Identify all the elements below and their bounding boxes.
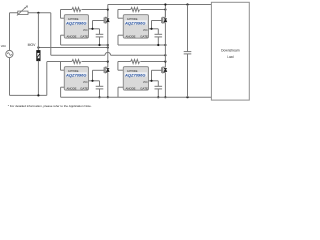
wire: cathode drop	[60, 10, 62, 19]
wire: cathode stub	[61, 17, 65, 19]
wire: cathode stub	[118, 17, 123, 19]
wire: anode jog down	[117, 87, 119, 97]
wire: Q1 drain riser	[107, 5, 109, 10]
load block	[211, 2, 249, 100]
svg-text:CATHODE: CATHODE	[127, 69, 138, 73]
junction: drain to rail	[164, 60, 166, 62]
wire: AC to input wire	[9, 13, 11, 51]
wire: gate wire	[93, 20, 105, 22]
body diode	[106, 69, 109, 72]
svg-text:CATHODE: CATHODE	[68, 69, 79, 73]
junction	[164, 54, 166, 56]
svg-text:AQZ7096G: AQZ7096G	[65, 73, 87, 77]
junction: MOV / bus	[37, 94, 39, 96]
junction: drain to rail	[107, 8, 109, 10]
transistor Q2	[161, 17, 163, 23]
varistor MOV	[37, 51, 40, 61]
junction	[91, 80, 93, 82]
wire: snubber cap top leg	[187, 5, 189, 52]
junction: drain to rail	[164, 8, 166, 10]
wire: turn-off tap vertical	[92, 21, 94, 29]
wire: to cap top	[99, 29, 101, 35]
svg-text:* For detailed information, pl: * For detailed information, please refer…	[8, 104, 92, 108]
svg-text:AQZ7096G: AQZ7096G	[124, 21, 146, 25]
part number band	[125, 72, 147, 76]
wire: AC return	[9, 58, 11, 96]
wire: MOV to bottom bus	[37, 61, 39, 96]
wire: source lead	[107, 73, 109, 98]
svg-text:Downstream: Downstream	[221, 48, 240, 52]
body diode	[164, 19, 167, 22]
wire: cathode drop	[117, 10, 119, 19]
svg-text:GATE: GATE	[80, 35, 88, 39]
svg-text:AQZ7096G: AQZ7096G	[124, 73, 146, 77]
svg-text:ANODE: ANODE	[126, 87, 136, 91]
svg-text:GATE: GATE	[140, 35, 148, 39]
wire: to cap top	[99, 81, 101, 87]
opto gate driver U1 (top-left)	[64, 15, 88, 38]
wire: Q2 source to Q4 drain link	[164, 45, 166, 62]
wire: line input	[10, 12, 51, 14]
capacitor C2	[155, 33, 163, 35]
svg-text:ANODE: ANODE	[67, 87, 77, 91]
wire hop over Q1/Q3 link	[105, 52, 111, 55]
resistor R2	[131, 8, 140, 12]
wire: drain lead	[164, 62, 166, 68]
wire: output return line to load	[61, 96, 212, 98]
wire: cap to source line	[157, 37, 159, 45]
wire: anode jog down	[60, 35, 62, 45]
wire: anode stub	[118, 34, 123, 36]
opto gate driver U4 (bottom-right)	[123, 67, 148, 91]
wire: cap to source line	[99, 89, 101, 97]
body diode	[106, 19, 109, 22]
junction	[91, 28, 93, 30]
svg-text:VCC: VCC	[83, 28, 88, 32]
wire: to cap top	[157, 29, 159, 35]
transistor Q4	[161, 67, 163, 73]
capacitor C4	[155, 85, 163, 87]
svg-text:ANODE: ANODE	[67, 35, 77, 39]
svg-text:GATE: GATE	[80, 87, 88, 91]
opto gate driver U3 (bottom-left)	[64, 67, 88, 91]
wire: cathode stub	[61, 69, 65, 71]
wire: gate wire	[93, 69, 105, 71]
wire: LED feed rail for channel 1	[61, 9, 72, 11]
wire: gate wire	[152, 69, 162, 71]
wire: anode jog down	[117, 35, 119, 45]
capacitor C1	[96, 33, 104, 35]
wire: feed to right pair midpoint (left segment)	[51, 54, 105, 56]
svg-text:MOV: MOV	[28, 43, 37, 47]
wire: rail to drain junction	[82, 9, 108, 11]
junction	[157, 96, 159, 98]
wire: Q1 source to Q3 drain link	[107, 45, 109, 62]
svg-text:GATE: GATE	[140, 87, 148, 91]
wire: anode stub	[61, 34, 65, 36]
junction	[164, 96, 166, 98]
part number band	[66, 20, 87, 24]
wire: to cap top	[157, 81, 159, 87]
junction: MOV line tap	[37, 46, 39, 48]
wire: source lead	[107, 23, 109, 45]
wire: anode jog down	[60, 87, 62, 97]
body diode	[164, 69, 167, 72]
wire: feed to right pair midpoint (right segment)	[111, 54, 166, 56]
junction	[98, 96, 100, 98]
wire: gate-return/source line	[118, 44, 165, 46]
wire: VCC stub	[89, 80, 100, 82]
wire: source lead	[164, 73, 166, 98]
junction: cap / return line	[186, 96, 188, 98]
wire: source lead	[164, 23, 166, 45]
wire: cathode drop	[60, 62, 62, 71]
wire: Q2 drain riser	[164, 5, 166, 18]
svg-text:ANODE: ANODE	[126, 35, 136, 39]
wire: to MOV	[37, 13, 39, 51]
wire: turn-off tap vertical	[151, 21, 153, 29]
junction	[98, 44, 100, 46]
wire: LED feed rail for channel 4	[118, 61, 131, 63]
wire: LED feed rail for channel 3	[47, 61, 72, 63]
opto gate driver U2 (top-right)	[123, 15, 148, 38]
wire: rail to drain junction	[140, 61, 165, 63]
svg-text:VCC: VCC	[143, 28, 148, 32]
svg-text:VAC: VAC	[1, 44, 7, 48]
wire: gate-return/source line	[61, 44, 108, 46]
wire: cathode stub	[118, 69, 123, 71]
junction	[157, 44, 159, 46]
svg-text:VCC: VCC	[83, 80, 88, 84]
resistor R4	[131, 60, 140, 64]
junction: drain to rail	[107, 60, 109, 62]
wire: anode stub	[118, 86, 123, 88]
part number band	[125, 20, 147, 24]
junction: bus / Q2	[164, 3, 166, 5]
resistor R1	[72, 8, 81, 12]
junction: input / MOV	[37, 12, 39, 14]
wire: rail to drain junction	[82, 61, 108, 63]
wire: rail to drain junction	[140, 9, 165, 11]
protector (fuse/breaker) on line input	[18, 11, 28, 14]
wire: VCC stub	[149, 28, 159, 30]
junction	[150, 28, 152, 30]
wire: VCC stub	[89, 28, 100, 30]
transistor Q3	[103, 67, 105, 73]
wire: drain lead	[107, 62, 109, 68]
wire: VCC stub	[149, 80, 159, 82]
wire: AC return bus	[10, 94, 47, 96]
svg-text:AQZ7096G: AQZ7096G	[65, 21, 87, 25]
resistor R3	[72, 60, 81, 64]
wire: LED feed rail for channel 2	[118, 9, 131, 11]
svg-text:CATHODE: CATHODE	[68, 17, 79, 21]
wire: top bus to load	[108, 4, 212, 6]
capacitor C5 (across output)	[184, 51, 192, 53]
junction	[107, 44, 109, 46]
wire: cathode drop	[117, 62, 119, 71]
wire: gate wire	[152, 20, 162, 22]
wire: cap to source line	[157, 89, 159, 97]
junction	[107, 46, 109, 48]
wire: turn-off tap vertical	[92, 70, 94, 81]
capacitor C3	[96, 85, 104, 87]
wire: drain lead	[107, 10, 109, 18]
wire: cap to source line	[99, 37, 101, 45]
wire: anode stub	[61, 86, 65, 88]
wire: input drop	[50, 13, 52, 55]
wire: turn-off tap vertical	[151, 70, 153, 81]
svg-text:VCC: VCC	[143, 80, 148, 84]
AC source V1	[6, 50, 13, 57]
junction	[150, 80, 152, 82]
junction: bus / snubber cap	[186, 3, 188, 5]
svg-text:Load: Load	[227, 55, 233, 59]
wire: snubber cap bottom leg	[187, 54, 189, 97]
wire: feed to left pair midpoint	[38, 47, 107, 49]
transistor Q1	[103, 17, 105, 23]
wire: bottom LED return riser	[46, 62, 48, 96]
svg-text:CATHODE: CATHODE	[127, 17, 138, 21]
junction	[107, 96, 109, 98]
wire: drain lead	[164, 10, 166, 18]
junction	[164, 44, 166, 46]
part number band	[66, 72, 87, 76]
